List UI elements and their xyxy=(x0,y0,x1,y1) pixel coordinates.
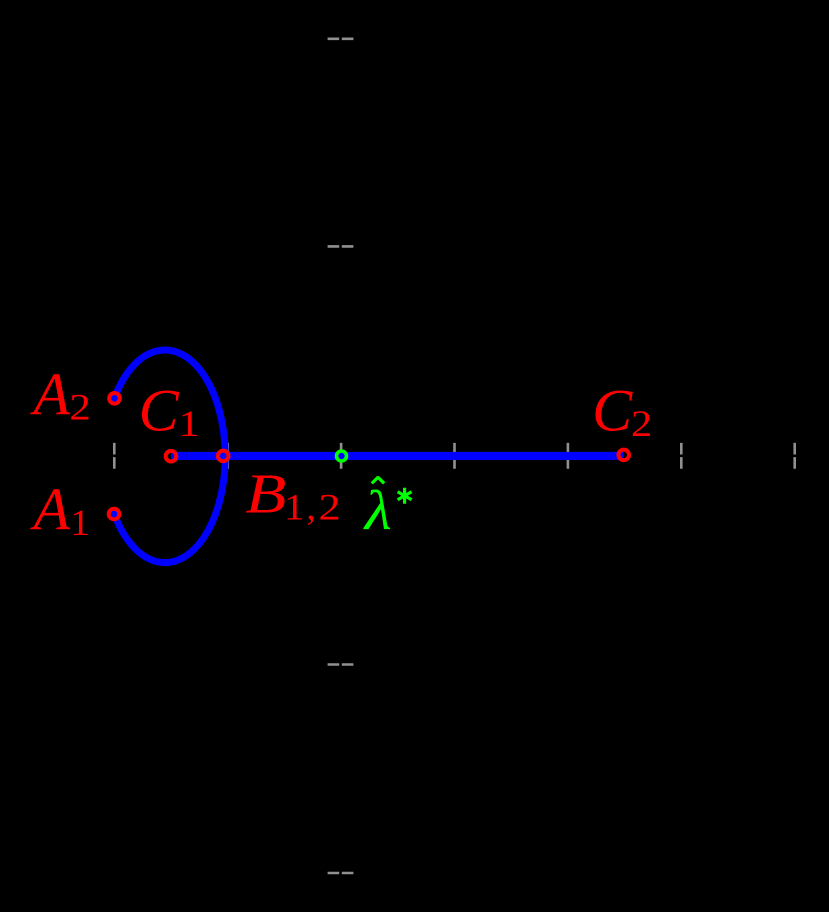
point C1 xyxy=(166,451,177,462)
label C2 xyxy=(592,377,652,444)
x-axis tick x=114 xyxy=(113,443,116,469)
svg-text:C: C xyxy=(592,377,633,443)
blue horizontal line C1 to C2 xyxy=(171,452,624,460)
point A2 xyxy=(109,393,120,404)
svg-text:B: B xyxy=(245,464,286,526)
point C2 xyxy=(618,450,629,461)
point A1 xyxy=(109,509,120,520)
svg-text:C: C xyxy=(139,377,180,443)
svg-text:1: 1 xyxy=(179,403,200,445)
y-axis tick y=39 xyxy=(328,37,354,40)
x-axis tick x=681 xyxy=(680,443,683,469)
label C1 xyxy=(139,377,200,444)
blue ellipse arc branch xyxy=(114,350,225,563)
x-axis tick x=454 xyxy=(453,443,456,469)
point lambda-star xyxy=(337,451,347,461)
x-axis tick x=795 xyxy=(793,443,796,469)
y-axis tick y=664 xyxy=(328,663,354,666)
x-axis tick x=341 xyxy=(340,443,343,469)
label B12 xyxy=(245,464,340,529)
label A2 xyxy=(30,361,91,428)
label A1 xyxy=(30,476,91,543)
x-axis tick x=228 xyxy=(226,443,229,469)
svg-text:2: 2 xyxy=(631,403,652,445)
svg-text:1: 1 xyxy=(284,487,305,528)
label lambda-hat-star xyxy=(363,477,412,542)
svg-text:2: 2 xyxy=(319,487,341,528)
point B12 xyxy=(218,451,229,462)
y-axis tick y=246 xyxy=(328,245,354,248)
svg-text:A: A xyxy=(30,361,71,427)
svg-text:1: 1 xyxy=(70,503,90,543)
y-axis tick y=873 xyxy=(328,872,354,875)
x-axis tick x=568 xyxy=(567,443,570,469)
svg-text:λ: λ xyxy=(363,480,392,542)
svg-text:A: A xyxy=(30,476,71,542)
svg-text:2: 2 xyxy=(69,386,90,428)
svg-text:,: , xyxy=(307,487,316,528)
